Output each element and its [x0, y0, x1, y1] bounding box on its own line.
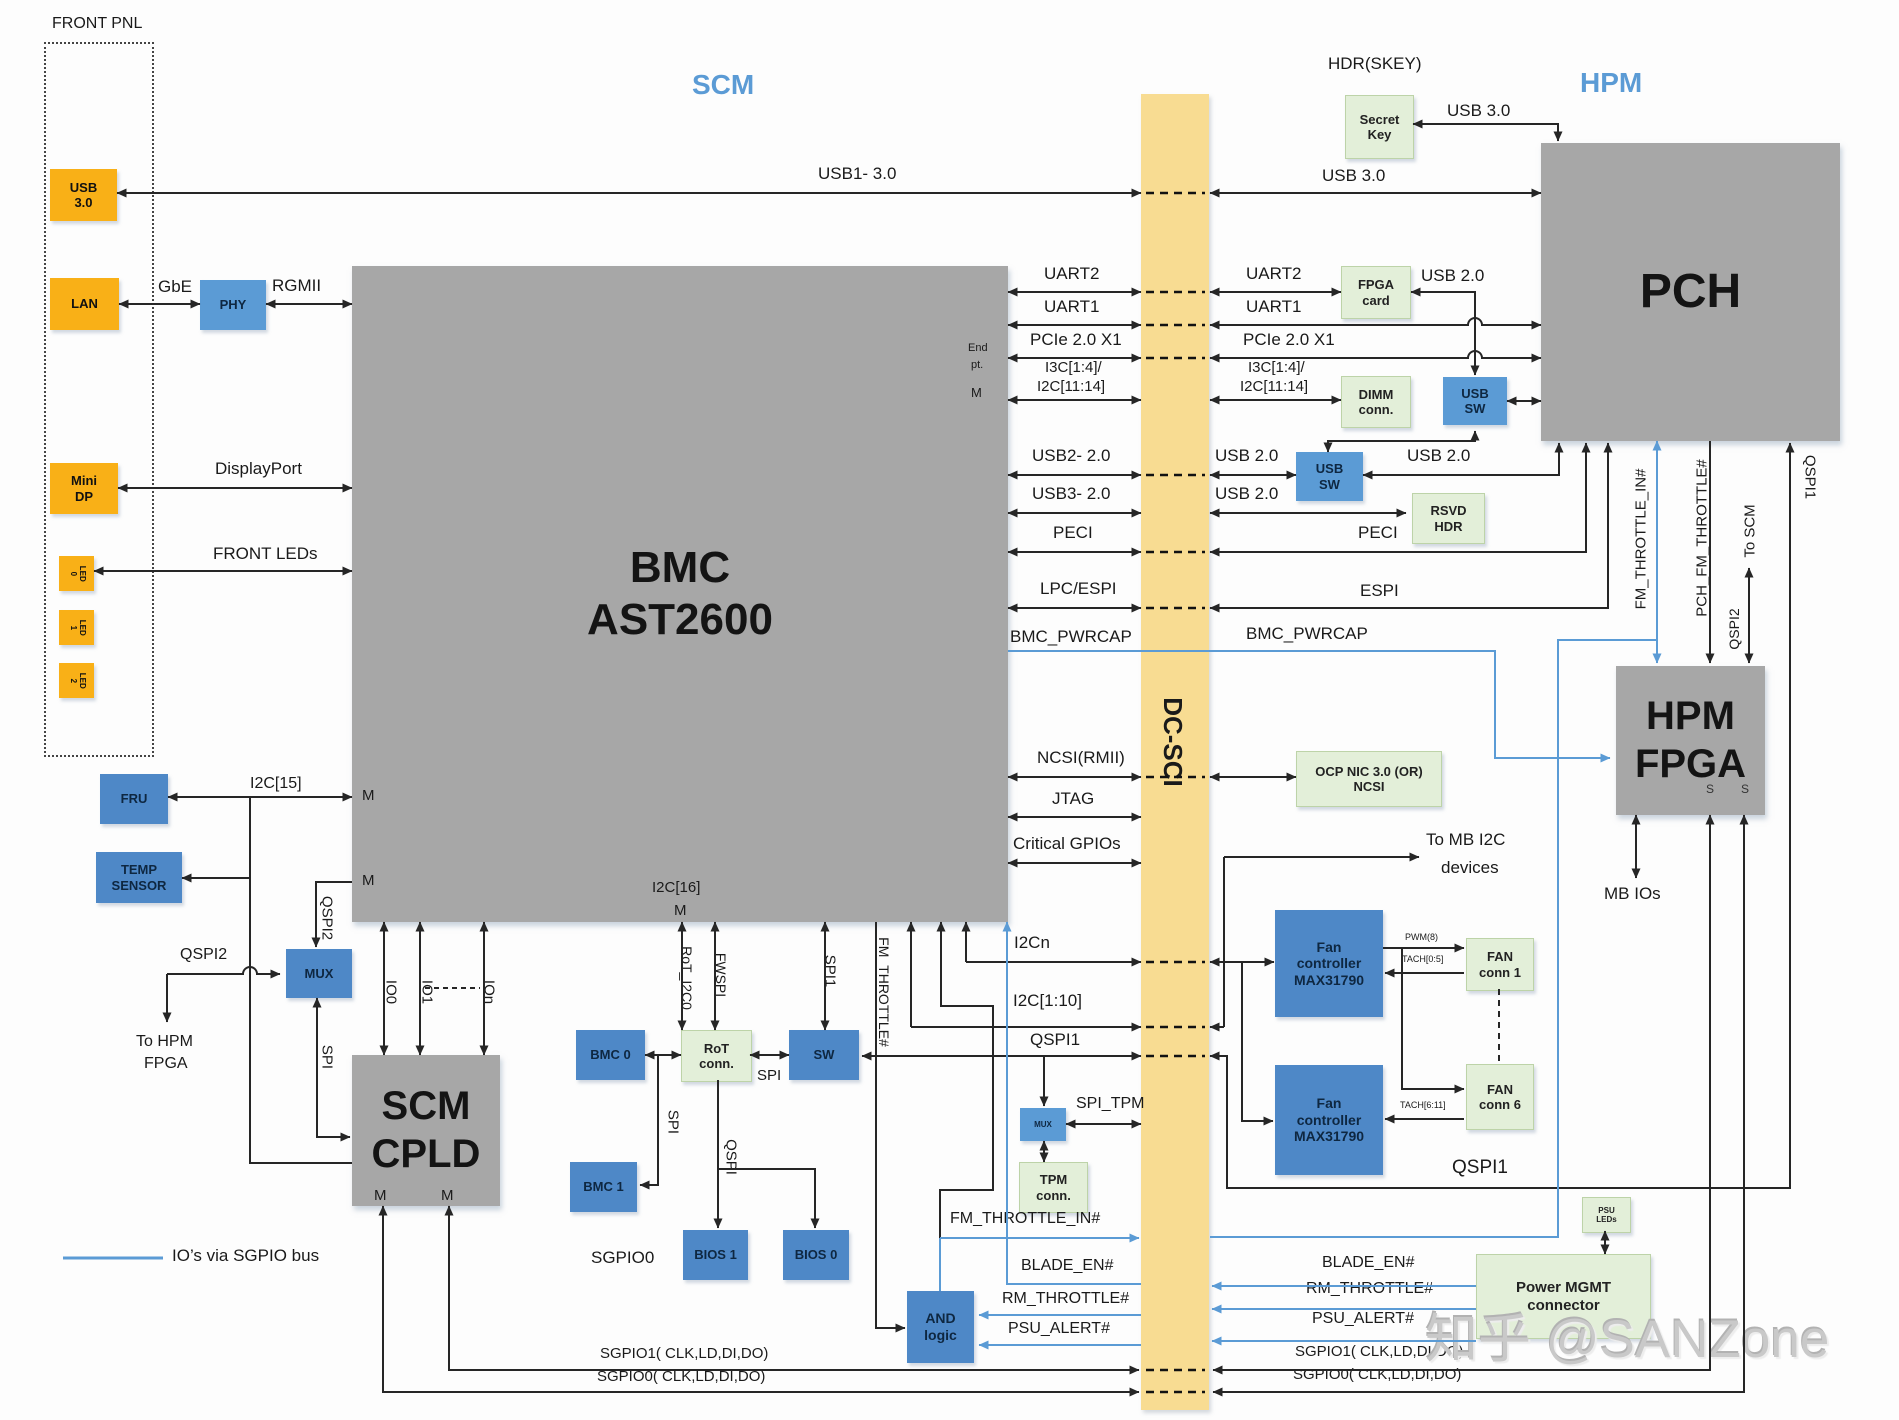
wire MUX-TPM conn: [1043, 1141, 1045, 1162]
wire RM_THROTTLE# right blue: [1212, 1308, 1476, 1310]
label SPI: [757, 1068, 781, 1084]
wire JTAG: [1008, 816, 1141, 818]
box FPGA card: [1341, 266, 1411, 319]
wire SGPIO1 FPGA to DC-SCI: [1213, 815, 1710, 1370]
wire USB 2.0 FPGA card to USB SW: [1411, 292, 1475, 375]
label QSPI2: [180, 947, 227, 964]
wire I2C vertical junction: [1223, 857, 1225, 1027]
wire BLADE_EN# right blue: [1212, 1285, 1476, 1287]
box RSVD HDR: [1412, 493, 1485, 544]
wire GbE LAN-PHY: [119, 303, 200, 305]
box USB SW: [1296, 452, 1363, 501]
wire SPI MUX to SCM CPLD: [317, 998, 350, 1137]
wire TACH[6:11]: [1385, 1118, 1464, 1120]
wire QSPI2 To SCM: [1748, 568, 1750, 663]
label PECI: [1053, 524, 1093, 542]
label SGPIO0( CLK,LD,DI,DO): [597, 1369, 765, 1385]
wire PCIe left: [1008, 357, 1141, 359]
wire I2C[1:10] vertical: [910, 922, 912, 1027]
label BMC_PWRCAP: [1010, 628, 1132, 646]
label SPI_TPM: [1076, 1096, 1144, 1113]
label To HPM: [136, 1034, 193, 1051]
label PSU_ALERT#: [1312, 1311, 1414, 1328]
wire RoT_I2C0: [681, 922, 683, 1030]
wire NCSI to OCP NIC: [1210, 776, 1296, 778]
box Secret Key: [1345, 95, 1414, 159]
label HDR(SKEY): [1328, 55, 1422, 73]
label To MB I2C: [1426, 831, 1505, 849]
box RoT conn.: [681, 1030, 752, 1082]
box AND logic: [907, 1291, 974, 1363]
wire QSPI1 SW to DC-SCI: [862, 1055, 1141, 1057]
label PSU_ALERT#: [1008, 1321, 1110, 1338]
wire PSU_ALERT# left blue: [979, 1344, 1141, 1346]
wire USB 3.0 Secret Key to PCH top: [1413, 124, 1558, 141]
label M: [374, 1188, 387, 1204]
box MUX: [286, 949, 352, 998]
wire I3C/I2C left: [1008, 399, 1141, 401]
box BIOS 1: [683, 1230, 748, 1280]
label ESPI: [1360, 582, 1399, 600]
label FM_THROTTLE_IN# (vertical): [1634, 469, 1649, 610]
wire RM_THROTTLE# left blue: [979, 1314, 1141, 1316]
wire USB 2.0 USB SW2 to PCH bottom: [1363, 443, 1559, 475]
box TEMP SENSOR: [96, 852, 182, 903]
label USB1- 3.0: [818, 165, 896, 183]
label QSPI2 (vertical): [1727, 608, 1741, 649]
label SGPIO1( CLK,LD,DI,DO): [1295, 1344, 1463, 1360]
wire To HPM FPGA: [166, 974, 168, 1022]
label Critical GPIOs: [1013, 835, 1121, 853]
label PCIe 2.0 X1: [1243, 331, 1335, 349]
wire UART2 left: [1008, 291, 1141, 293]
box BIOS 0: [783, 1230, 849, 1280]
wire IO dashed continuation: [425, 987, 480, 989]
wire I2Cn vertical: [965, 922, 967, 962]
label USB 2.0: [1215, 485, 1278, 503]
label SGPIO0: [591, 1249, 654, 1267]
wire PECI left: [1008, 551, 1141, 553]
label UART2: [1044, 265, 1099, 283]
label PCIe 2.0 X1: [1030, 331, 1122, 349]
wire SPI1 BMC-SW: [824, 922, 826, 1030]
wire I2C[1:10] right stub: [1210, 1026, 1224, 1028]
label pt.: [971, 360, 983, 372]
label SCM: [692, 70, 754, 99]
wire USB2-2.0 left: [1008, 474, 1141, 476]
wire PWM branch to FAN conn 6: [1402, 948, 1464, 1089]
label USB 3.0: [1322, 167, 1385, 185]
wire PCH_FM_THROTTLE# PCH to FPGA: [1709, 441, 1711, 663]
DC-SCI crossing dashes: [1146, 192, 1205, 195]
label FM_THROTTLE_IN#: [950, 1211, 1100, 1228]
label UART1: [1044, 298, 1099, 316]
label USB2- 2.0: [1032, 447, 1110, 465]
label FRONT LEDs: [213, 545, 318, 563]
wire PECI to PCH bottom: [1210, 443, 1586, 552]
label I2C[16]: [652, 880, 700, 896]
label BLADE_EN#: [1021, 1258, 1114, 1275]
wire SPI_TPM: [1066, 1123, 1141, 1125]
wire I2Cn horizontal: [966, 961, 1141, 963]
label QSPI1 (vertical): [1803, 455, 1818, 499]
wire QSPI1 drop to MUX: [1043, 1056, 1045, 1106]
wire SPI RoT-SW: [750, 1054, 789, 1056]
label QSPI1: [1030, 1031, 1080, 1049]
label GbE: [158, 278, 192, 296]
box Fan controller MAX31790: [1275, 1065, 1383, 1175]
wire UART2 to FPGA card: [1210, 291, 1341, 293]
legend blue line: [63, 1257, 163, 1260]
wire USB 2.0 to RSVD HDR: [1210, 512, 1406, 514]
wire FM_THROTTLE_IN# from BMC: [940, 922, 993, 1238]
wire SGPIO0 FPGA to DC-SCI: [1213, 815, 1744, 1392]
wire USB 2.0 to USB SW2: [1210, 474, 1296, 476]
label JTAG: [1052, 790, 1094, 808]
label IO&rsquo;s via SGPIO bus: [172, 1247, 319, 1265]
box BMC AST2600: [352, 266, 1008, 922]
label RGMII: [272, 277, 321, 295]
label PWM(8): [1405, 933, 1438, 942]
label SPI (vertical): [666, 1110, 681, 1134]
wire ESPI to PCH bottom: [1210, 443, 1608, 608]
label I2C[1:10]: [1013, 992, 1082, 1010]
label M: [362, 788, 375, 804]
label USB 2.0: [1421, 267, 1484, 285]
label DisplayPort: [215, 460, 302, 478]
box LAN: [50, 278, 119, 330]
wire IO0: [383, 922, 385, 1055]
wire USB1-3.0 front-panel to DC-SCI: [117, 192, 1141, 194]
label HPM: [1580, 68, 1642, 97]
label BLADE_EN#: [1322, 1255, 1415, 1272]
label FPGA: [144, 1056, 188, 1073]
box PCH: [1541, 143, 1840, 441]
label RM_THROTTLE#: [1306, 1281, 1433, 1298]
box Fan controller MAX31790: [1275, 910, 1383, 1017]
label USB 3.0: [1447, 102, 1510, 120]
wire BMC_PWRCAP blue to HPM FPGA: [1008, 651, 1610, 758]
wire QSPI to BIOS0: [718, 1169, 815, 1228]
wire DisplayPort: [118, 487, 352, 489]
label PECI: [1358, 524, 1398, 542]
wire MB IOs: [1635, 815, 1637, 878]
label UART2: [1246, 265, 1301, 283]
wire FWSPI: [714, 922, 716, 1030]
label SPI1 (vertical): [823, 955, 838, 988]
label RoT_I2C0 (vertical): [680, 946, 694, 1010]
label I3C[1:4]/: [1045, 360, 1102, 376]
wire I2Cn to Fan controller 1: [1210, 961, 1274, 963]
label IO1 (vertical): [420, 980, 435, 1004]
label TACH[6:11]: [1400, 1101, 1446, 1110]
wire PSU LEDs to Power MGMT: [1604, 1231, 1606, 1254]
wire SGPIO1 SCM CPLD to DC-SCI: [449, 1206, 1139, 1370]
wire UART1 to PCH with hop: [1210, 318, 1541, 325]
label I3C[1:4]/: [1248, 360, 1305, 376]
wire QSPI2 to MUX left with hop: [167, 967, 280, 974]
label USB 2.0: [1215, 447, 1278, 465]
box USB SW: [1443, 377, 1507, 425]
box PHY: [200, 280, 266, 330]
wire I2C[15] FRU-BMC: [168, 796, 352, 798]
label FM_THROTTLE# (vertical): [877, 937, 891, 1047]
label NCSI(RMII): [1037, 749, 1125, 767]
wire UART1 left: [1008, 324, 1141, 326]
label USB3- 2.0: [1032, 485, 1110, 503]
wire FM_THROTTLE_IN# PCH-FPGA blue: [1656, 441, 1658, 663]
label IO0 (vertical): [384, 980, 399, 1004]
wire blue to AND logic: [939, 1238, 941, 1291]
wire USB SW2 top to USB SW1 bottom: [1328, 431, 1475, 452]
label USB 2.0: [1407, 447, 1470, 465]
box SCM CPLD: [352, 1055, 500, 1206]
wire IOn: [483, 922, 485, 1055]
wire PCIe to PCH with hop: [1210, 351, 1541, 358]
box LED 2: [59, 663, 94, 698]
box DIMM conn.: [1341, 376, 1411, 428]
wire FAN conn dashed: [1498, 989, 1500, 1064]
watermark: [1425, 1297, 1829, 1373]
label I2C[11:14]: [1240, 379, 1308, 395]
box PSU LEDs: [1582, 1197, 1631, 1233]
label FRONT PNL: [52, 16, 142, 33]
wire FM_THROTTLE_IN# blue branch: [1210, 640, 1657, 1237]
box HPM FPGA: [1616, 666, 1765, 815]
box BMC 1: [570, 1162, 637, 1212]
box SW: [789, 1030, 859, 1080]
wire trunk I2C15 to SCM CPLD: [250, 797, 352, 1163]
wire BLADE_EN# left blue: [1007, 922, 1141, 1284]
wire QSPI1 to PCH bottom: [1210, 443, 1790, 1188]
box LED 0: [59, 556, 94, 591]
FRONT PNL dashed enclosure: [44, 42, 154, 757]
wire I2C branch to Fan controller 2: [1242, 962, 1273, 1121]
wire QSPI2 BMC to MUX: [316, 882, 352, 947]
wire USB SW - PCH: [1507, 400, 1541, 402]
label I2Cn: [1014, 934, 1050, 952]
wire TACH[0:5]: [1385, 972, 1464, 974]
label To SCM (vertical): [1743, 504, 1758, 557]
wire QSPI RoT to BIOS1: [717, 1080, 719, 1228]
label M: [674, 903, 687, 919]
label DC-SCI (vertical): [1160, 697, 1186, 787]
label SPI (vertical): [320, 1045, 335, 1069]
wire I2C[1:10] horizontal: [911, 1026, 1141, 1028]
wire NCSI left: [1008, 776, 1141, 778]
label devices: [1441, 859, 1499, 877]
wire FRONT LEDs: [94, 570, 352, 572]
box LED 1: [59, 610, 94, 645]
wire To MB I2C devices: [1224, 856, 1419, 858]
box TPM conn.: [1019, 1162, 1088, 1213]
label End: [968, 343, 988, 355]
label MB IOs: [1604, 885, 1661, 903]
wire FM_THROTTLE_IN# left blue: [940, 1237, 1139, 1239]
wire LPC/ESPI left: [1008, 607, 1141, 609]
label SGPIO1( CLK,LD,DI,DO): [600, 1346, 768, 1362]
wire USB3-2.0 left: [1008, 512, 1141, 514]
label QSPI (vertical): [724, 1139, 739, 1175]
box BMC 0: [576, 1030, 645, 1080]
label LPC/ESPI: [1040, 580, 1117, 598]
wire BMC0-RoT: [645, 1054, 681, 1056]
wire SGPIO0 SCM CPLD to DC-SCI: [383, 1206, 1139, 1392]
box MUX: [1020, 1108, 1066, 1141]
label M: [441, 1188, 454, 1204]
wire PSU_ALERT# right blue: [1212, 1340, 1476, 1342]
box Power MGMT connector: [1476, 1254, 1651, 1339]
label RM_THROTTLE#: [1002, 1291, 1129, 1308]
label SGPIO0( CLK,LD,DI,DO): [1293, 1367, 1461, 1383]
box USB 3.0: [50, 169, 117, 221]
wire to TEMP SENSOR: [182, 877, 250, 879]
wire USB 3.0 to PCH: [1210, 192, 1541, 194]
label TACH[0:5]: [1402, 955, 1443, 964]
label QSPI1: [1452, 1158, 1508, 1178]
box FRU: [100, 774, 168, 824]
label I2C[15]: [250, 776, 302, 793]
label S: [1741, 783, 1749, 796]
wire Critical GPIOs: [1008, 862, 1141, 864]
wire RGMII PHY-BMC: [266, 303, 352, 305]
box Mini DP: [50, 463, 118, 514]
wire IO1: [419, 922, 421, 1055]
DC-SCI connector band: [1141, 94, 1209, 1410]
label M: [971, 386, 982, 400]
wire SPI to BMC1: [640, 1055, 658, 1185]
label PCH_FM_THROTTLE# (vertical): [1695, 459, 1710, 617]
wire PWM(8): [1383, 947, 1464, 949]
label M: [362, 873, 375, 889]
box FAN conn 1: [1466, 938, 1534, 991]
wire FM_THROTTLE# BMC to AND logic: [876, 922, 905, 1328]
label IOn (vertical): [482, 980, 497, 1004]
label UART1: [1246, 298, 1301, 316]
label FWSPI (vertical): [714, 953, 728, 997]
label I2C[11:14]: [1037, 379, 1105, 395]
label S: [1706, 783, 1714, 796]
label QSPI2 (vertical): [320, 896, 335, 940]
box OCP NIC 3.0 (OR) NCSI: [1296, 751, 1442, 807]
label BMC_PWRCAP: [1246, 625, 1368, 643]
box FAN conn 6: [1466, 1064, 1534, 1130]
wire I3C to DIMM conn: [1210, 399, 1341, 401]
